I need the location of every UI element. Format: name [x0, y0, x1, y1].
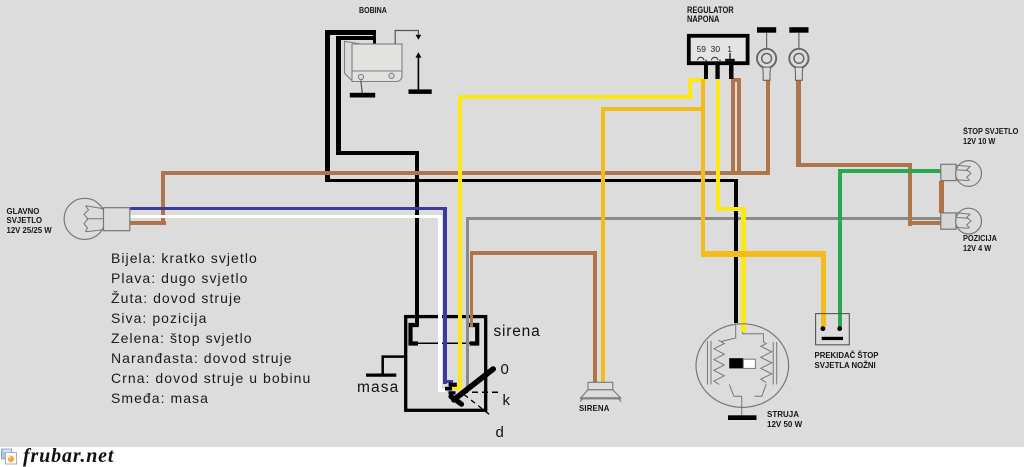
voltage regulator box: [689, 36, 748, 63]
wire black vertical into switch box: [415, 151, 419, 326]
regulator leg 30: [715, 65, 719, 79]
switch lever cap: [451, 397, 462, 405]
ring terminal 2: [789, 33, 808, 81]
label STRUJA: [767, 410, 802, 430]
wire brown speaker vertical: [593, 251, 597, 382]
label PREKIDAC STOP SVJETLA NOZNI: [815, 351, 879, 371]
regulator leg 59: [704, 65, 708, 79]
wire white kratko svjetlo horizontal: [130, 215, 442, 219]
wire black drop from primary bars to coil body: [373, 33, 376, 44]
label masa: [357, 379, 399, 397]
spark plug ground lead: [417, 57, 419, 90]
wire gray vertical into switch: [466, 217, 470, 391]
wire brown horizontal to stop lamp area: [796, 163, 913, 167]
spark gap up arrow: [415, 52, 421, 57]
ignition coil BOBINA body: [345, 41, 403, 93]
ring terminal 1: [757, 33, 776, 81]
wire yellow bus horizontal: [458, 95, 693, 99]
pozicija lamp socket: [941, 213, 956, 229]
wire white foot overlay: [438, 389, 447, 393]
spark gap down arrow: [416, 35, 422, 40]
label k: [503, 392, 511, 409]
ring terminal 2 chassis bar: [789, 27, 808, 33]
frubar.net logo icon: [2, 449, 17, 464]
wire brown column B down from jog: [737, 78, 741, 175]
headlight bulb GLAVNO SVJETLO: [64, 198, 130, 239]
label 0: [501, 361, 509, 378]
wire brown vertical right side down: [908, 163, 913, 226]
wire yellow jog horizontal: [716, 207, 746, 211]
wire blue dugo svjetlo horizontal: [130, 207, 447, 211]
handlebar switch box: [406, 317, 486, 411]
switch lever: [454, 369, 493, 400]
pozicija lamp filament: [956, 213, 971, 228]
regulator terminal symbol 30: [712, 57, 721, 60]
footer white strip: [0, 447, 1024, 467]
wire blue foot at switch contact: [443, 380, 453, 384]
ground bar under coil: [350, 93, 375, 98]
wire yellow drop from terminal 30: [716, 79, 720, 211]
stop lamp filament: [956, 165, 971, 180]
spark plug lead wire: [395, 31, 418, 45]
label STOP SVJETLO: [963, 127, 1018, 147]
wire yellow elbow top horizontal to terminal 59: [688, 78, 707, 82]
wire black vertical down to magneto: [734, 179, 739, 323]
wire orange vertical into brake switch: [821, 251, 825, 328]
masa lead from switch: [383, 357, 405, 375]
switch dashed line to d: [464, 395, 492, 417]
label d: [496, 424, 504, 441]
regulator terminal 1 ground symbol: [729, 53, 731, 59]
wire yellow elbow vertical at regulator: [688, 78, 692, 99]
spark plug ground bar: [409, 89, 432, 94]
brake switch terminal dot right: [837, 326, 842, 331]
switch right contact bracket: [469, 325, 477, 344]
frubar.net logo text: [23, 445, 114, 467]
wire orange vertical down to sirena: [601, 107, 605, 384]
switch left contact bracket: [411, 325, 419, 344]
wire black coil top horizontal outer: [325, 30, 376, 35]
wire white vertical overlay into switch: [438, 300, 442, 392]
pozicija lamp bulb: [956, 208, 982, 234]
magneto rotor black block: [729, 358, 743, 368]
wire orange branch horizontal to sirena: [601, 107, 705, 111]
wire brown drop from ring terminal 2: [796, 80, 801, 167]
switch contact tick 2: [445, 387, 452, 391]
wire brown horizontal into pozicija socket: [908, 221, 941, 225]
wire gray vertical overlay into switch: [466, 300, 470, 391]
switch contact tick 1: [449, 383, 457, 387]
magneto STRUJA stator circle: [696, 324, 789, 408]
label SIRENA: [579, 404, 610, 413]
legend colour key: [111, 248, 311, 408]
wire orange main vertical from terminal 59: [701, 79, 705, 257]
stop lamp socket: [941, 164, 956, 180]
ring terminal 1 chassis bar: [757, 27, 776, 33]
wire brown vertical to headlight: [161, 171, 165, 225]
wire blue vertical into switch: [443, 207, 447, 384]
wire brown down into switch sirena contact: [470, 251, 474, 327]
magneto internal wiring: [707, 323, 776, 415]
headlight filament: [84, 206, 104, 232]
wire black bus to magneto: [325, 179, 738, 182]
wire gray pozicija bus horizontal: [466, 217, 941, 220]
wire brown masa bus horizontal: [161, 171, 770, 175]
switch internal link line: [414, 342, 474, 344]
wire brown jog top at regulator: [731, 78, 742, 82]
switch dashed line to k: [462, 391, 499, 393]
wire yellow foot at switch contact: [451, 385, 462, 390]
label REGULATOR NAPONA: [687, 6, 734, 24]
regulator terminal symbol 59: [698, 57, 707, 60]
switch contact tick 3: [449, 391, 456, 394]
brake switch contact bar: [822, 337, 843, 340]
wire white foot at switch contact: [438, 389, 447, 393]
wire black vertical overlay into switch: [415, 300, 419, 326]
stop lamp bulb: [956, 161, 982, 187]
wire brown column C up to ring terminal 1: [766, 80, 771, 175]
wire yellow vertical overlay into switch: [458, 300, 462, 390]
wire yellow vertical into switch: [458, 95, 462, 390]
label POZICIJA: [963, 234, 997, 254]
wire brown vertical overlay into switch: [470, 300, 474, 327]
wire brown speaker horizontal: [470, 251, 597, 255]
wire black horizontal to switch: [336, 151, 419, 155]
wire black coil vertical outer: [325, 30, 330, 182]
label GLAVNO SVJETLO: [7, 207, 52, 235]
brake switch terminal dot left: [821, 326, 826, 331]
wire brown connector between lamp sockets: [939, 181, 944, 214]
wire brown horizontal into headlight socket: [130, 221, 166, 225]
wire yellow vertical into magneto: [741, 207, 745, 332]
masa ground bar: [366, 374, 396, 377]
wire green vertical into brake switch: [838, 169, 842, 329]
magneto rotor white block: [743, 359, 755, 368]
wire blue foot overlay: [443, 380, 453, 384]
regulator leg 1: [729, 65, 734, 79]
wire white vertical into switch: [438, 215, 442, 393]
wire blue vertical overlay into switch: [443, 300, 447, 384]
wire orange jog horizontal to brake switch: [704, 251, 826, 257]
label 59 30 1: [697, 44, 732, 54]
label sirena: [494, 323, 541, 341]
wire black coil vertical inner: [336, 36, 341, 156]
horn speaker SIRENA: [580, 382, 621, 401]
wire green stop svjetlo horizontal: [838, 169, 941, 172]
wire black coil top horizontal inner: [336, 36, 375, 41]
label BOBINA: [359, 5, 387, 15]
brake light switch box PREKIDAC: [816, 314, 850, 345]
magneto ground bar: [728, 415, 757, 420]
wire brown column A up to regulator terminal 1: [731, 78, 735, 175]
